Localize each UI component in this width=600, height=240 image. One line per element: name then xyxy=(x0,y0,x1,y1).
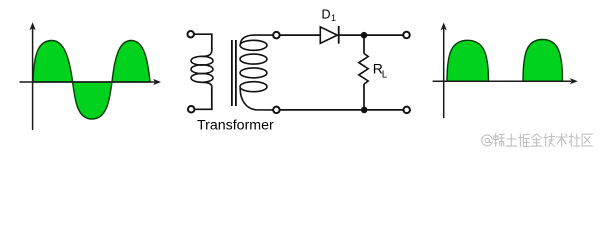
right plot y-axis xyxy=(443,29,445,119)
watermark 区 xyxy=(582,134,592,146)
wire primary top xyxy=(194,34,212,49)
wire secondary top + entry swoosh xyxy=(241,35,274,44)
secondary winding loop4 xyxy=(240,82,267,92)
right x-axis arrowhead xyxy=(570,78,578,84)
primary terminal bottom circle xyxy=(188,106,195,113)
output terminal bottom circle xyxy=(403,107,410,114)
watermark 掘 xyxy=(518,134,529,147)
watermark 金 xyxy=(531,134,542,146)
output terminal top circle xyxy=(403,32,410,39)
secondary terminal bottom circle xyxy=(273,107,280,114)
watermark 土 xyxy=(506,134,517,146)
primary terminal top circle xyxy=(187,31,194,38)
secondary winding loop2 xyxy=(240,54,267,64)
output waveform hump 2 xyxy=(523,40,563,82)
primary exit hook xyxy=(202,82,212,88)
junction node top xyxy=(361,32,368,39)
secondary terminal top circle xyxy=(273,32,280,39)
wire primary bottom xyxy=(194,88,211,110)
input sine waveform (filled) xyxy=(33,41,150,120)
wire secondary to diode xyxy=(279,34,320,36)
svg-text:Transformer: Transformer xyxy=(197,118,274,134)
resistor RL zigzag xyxy=(359,54,368,85)
left y-axis arrowhead xyxy=(30,22,36,30)
transformer core line 1 xyxy=(231,40,233,106)
svg-text:1: 1 xyxy=(331,13,336,23)
bottom rail wire xyxy=(279,109,403,111)
primary entry hook xyxy=(202,49,212,57)
watermark @稀土掘金技术社区 (vector strokes, no CJK font on renderer) xyxy=(482,134,593,147)
primary winding L1 loop2 xyxy=(191,65,213,74)
watermark 稀 xyxy=(493,134,504,147)
watermark 技 xyxy=(544,134,555,147)
svg-text:D: D xyxy=(322,8,331,22)
primary winding L1 loop1 xyxy=(191,56,213,65)
diode D1 triangle xyxy=(320,27,337,43)
left x-axis arrowhead xyxy=(153,79,161,85)
diode D1 cathode bar xyxy=(338,26,340,44)
secondary exit swoosh + wire bottom xyxy=(240,88,273,110)
transformer core line 2 xyxy=(235,40,237,106)
right plot x-axis xyxy=(433,80,572,82)
left plot x-axis xyxy=(20,81,156,83)
watermark 术 xyxy=(556,134,567,147)
watermark 社 xyxy=(569,134,580,147)
right y-axis arrowhead xyxy=(441,23,447,31)
wire node to resistor xyxy=(363,35,365,54)
watermark @ xyxy=(482,135,493,146)
secondary winding loop3 xyxy=(240,68,267,78)
secondary winding loop1 xyxy=(240,40,267,50)
svg-text:L: L xyxy=(382,70,388,81)
output waveform hump 1 xyxy=(447,40,489,81)
primary winding L1 loop3 xyxy=(191,74,213,83)
junction node bottom xyxy=(361,107,368,114)
wire diode to top-right terminal xyxy=(339,34,404,36)
left plot y-axis xyxy=(32,28,34,130)
wire resistor to bottom rail xyxy=(363,84,365,110)
